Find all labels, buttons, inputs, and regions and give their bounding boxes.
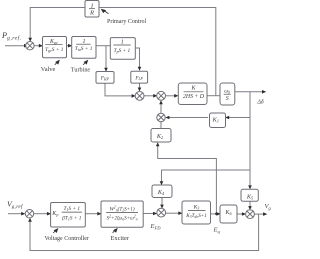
arrow down into K4 [160, 181, 164, 185]
wire Eq prime riser to K2 [158, 144, 217, 214]
wire Vgref input [8, 213, 24, 215]
svg-text:Kgv: Kgv [49, 39, 58, 45]
arrow down into SA top [138, 88, 142, 92]
arrow into SE left [242, 212, 246, 216]
wire branch down to FHP [105, 46, 107, 71]
wire SC up into SB [160, 102, 162, 114]
wire K3 to K6 [211, 213, 219, 215]
arrow into SA left [132, 94, 136, 98]
wire K1 output to SC [167, 117, 208, 119]
wire swing block to integrator [207, 95, 220, 97]
svg-text:Primary Control: Primary Control [107, 19, 146, 25]
block valve Kgv/(TgvS+1) [43, 37, 67, 58]
arrow into turbine [68, 44, 72, 48]
block voltage controller Kp(T1S+1)/(bT1S+1) [51, 203, 86, 228]
svg-text:Kp: Kp [51, 211, 58, 217]
arrow up into SB bottom [159, 100, 163, 104]
svg-text:Voltage Controller: Voltage Controller [45, 236, 89, 242]
wire Pgref input [5, 45, 24, 47]
wire delta tap to K4 [162, 170, 251, 184]
wire droop pickup: riser from speed node to 1/R [99, 8, 216, 96]
bar valve [45, 44, 62, 46]
summing junction SD (EFD - K4) [157, 208, 166, 217]
block swing K/(2HS+D) [178, 83, 207, 105]
annotation arrow valve [55, 62, 57, 65]
wire exciter to SD (EFD) [143, 213, 155, 215]
block reheater 1/(TpS+1) [110, 38, 135, 60]
svg-text:TgvS + 1: TgvS + 1 [45, 47, 64, 53]
svg-text:S2+2ζωnS+ω2n: S2+2ζωnS+ω2n [106, 215, 137, 222]
arrow into K3 [178, 211, 182, 215]
arrow into K6 [217, 212, 221, 216]
block exciter wn2(T2S+1)/(S2+2zwnS+wn2) [101, 201, 143, 227]
arrow down into S1 top [28, 38, 32, 42]
arrow delta output tip [262, 90, 266, 94]
arrow into K1 right side [225, 116, 229, 120]
annotation arrows [53, 9, 117, 233]
wire delta tap to K1 [226, 117, 250, 119]
arrowheads [21, 38, 267, 222]
arrow into exciter [97, 212, 101, 216]
wire Vg feedback loop bottom [30, 214, 259, 250]
svg-text:Δδ: Δδ [257, 100, 264, 106]
arrow down into FHP [104, 68, 108, 72]
block texts [45, 3, 253, 222]
wire delta vertical feedback to K5 [249, 92, 251, 188]
arrow down into SD top [160, 205, 164, 209]
arrow down into SE top [248, 206, 252, 210]
svg-text:1: 1 [121, 40, 124, 46]
svg-text:W2n(T2S+1): W2n(T2S+1) [109, 205, 134, 212]
bar voltage controller [62, 211, 82, 213]
block K6 [220, 205, 237, 223]
summing junction SF (Vgref) [25, 210, 33, 218]
block integrator w/S [220, 83, 235, 105]
junction dot Eq node [215, 213, 218, 216]
blocks [43, 1, 259, 228]
fraction bars [45, 9, 230, 213]
wire delta-delta output [235, 91, 265, 93]
arrow SA to SB [153, 94, 157, 98]
wire voltage controller to exciter [85, 213, 100, 215]
svg-text:Exciter: Exciter [111, 235, 130, 242]
summing junction SE (K6 + K5 = Vg) [246, 210, 255, 219]
bar K3 block [188, 210, 206, 212]
wire turbine to reheater [96, 45, 110, 47]
arrow down into FLP [138, 67, 142, 71]
wire SF to voltage controller [34, 213, 50, 215]
block turbine 1/(TtuS+1) [72, 37, 96, 59]
arrow Vg output tip [263, 212, 267, 216]
wire K2 up to SC [160, 122, 162, 129]
svg-text:S: S [226, 96, 229, 102]
svg-text:Turbine: Turbine [71, 66, 91, 73]
svg-text:T1S + 1: T1S + 1 [63, 206, 80, 212]
wire valve to turbine [67, 45, 71, 47]
summing junction SC (K1+K2) [157, 113, 165, 121]
wire FLP output into SA top [139, 83, 141, 90]
signal labels [1, 19, 271, 242]
wire 1/R output down into summing junction S1 [30, 8, 85, 41]
block 1/R primary droop [85, 1, 99, 18]
bar integrator [224, 93, 231, 95]
bar exciter [106, 212, 138, 214]
arrow into valve [39, 44, 43, 48]
wire reheater to FLP [135, 48, 139, 70]
wire FHP output to summing junction SA [105, 83, 134, 96]
arrow into SD left [153, 212, 157, 216]
summing junction SB (Tm - Te) [157, 91, 166, 100]
block K5 [241, 189, 258, 201]
svg-text:Valve: Valve [41, 66, 56, 73]
svg-text:2HS + D: 2HS + D [183, 94, 205, 100]
wire SE output Vg [254, 213, 266, 215]
block FLP [131, 71, 148, 83]
arrow up into K2 bottom [156, 142, 160, 146]
arrow down into K5 [248, 185, 252, 189]
svg-text:R: R [89, 10, 94, 17]
wire K4 output into SD [161, 198, 163, 208]
svg-text:TpS + 1: TpS + 1 [114, 48, 131, 54]
arrow into SC from K1 [165, 116, 169, 120]
arrow SB to swing [174, 94, 178, 98]
svg-text:1: 1 [83, 39, 86, 45]
arrow into S1 [24, 44, 28, 48]
annotation arrow turbine [83, 62, 85, 65]
annotation arrow voltage controller [53, 231, 55, 234]
svg-text:βT1S + 1: βT1S + 1 [61, 215, 82, 221]
arrow into SF [21, 212, 25, 216]
summing junctions [25, 42, 254, 219]
summing junction S1 (Pgref) [26, 42, 34, 50]
arrow into voltage controller [47, 212, 51, 216]
block FHP [96, 72, 114, 84]
svg-text:1: 1 [90, 3, 93, 10]
bar reheater [113, 44, 130, 46]
wire SA to SB [144, 95, 156, 97]
summing junction SA (turbine torques) [135, 92, 144, 101]
block K4 [152, 185, 172, 198]
wire K5 into SE top [249, 200, 251, 209]
wire SD to K3 block [166, 212, 181, 214]
bar 1/R [89, 8, 95, 10]
bar turbine [76, 43, 91, 45]
block K1 [210, 113, 226, 128]
annotation arrow exciter [113, 230, 115, 233]
bar swing [184, 91, 204, 93]
block K2 [151, 129, 171, 143]
wire K6 to SE [237, 213, 244, 215]
wire SB to swing block [166, 95, 177, 97]
block K3 field K3/(K3TdoS+1) [182, 201, 211, 224]
wire S1 to valve [34, 45, 41, 47]
arrow up into SF bottom [28, 218, 32, 222]
svg-text:TtuS + 1: TtuS + 1 [75, 46, 93, 52]
annotation arrow primary control [104, 11, 108, 14]
